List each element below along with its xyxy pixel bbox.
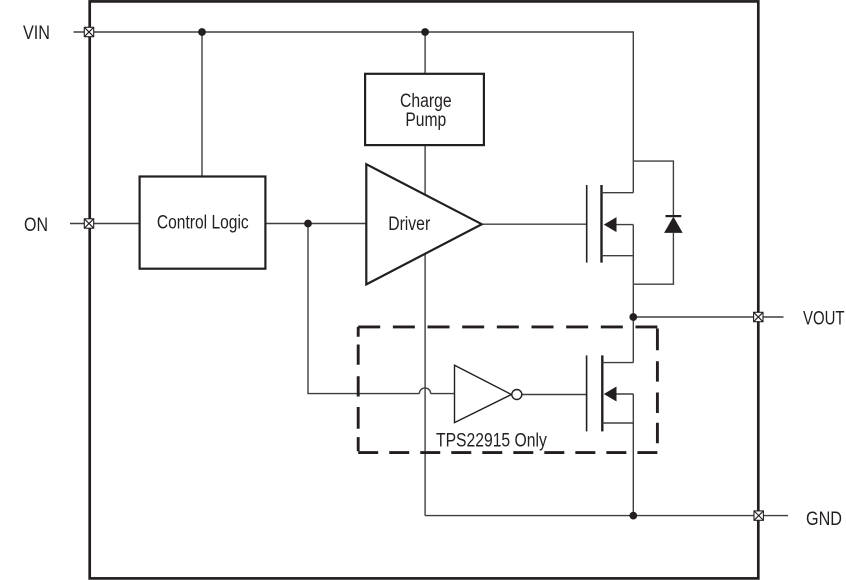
- transistor Q2 pulldown FET: [587, 355, 634, 431]
- transistor Q1 pass FET: [587, 185, 634, 263]
- Q2 source arm: [602, 422, 633, 424]
- wire VOUT node down to pulldown FET drain: [632, 317, 634, 363]
- wire body diode loop: [633, 161, 673, 284]
- wire Driver bottom to GND rail: [424, 253, 426, 515]
- dashed box right edge: [656, 329, 659, 444]
- dashed box left edge: [357, 327, 360, 451]
- wire VIN rail (VIN terminal to top of pass FET drain): [74, 32, 634, 193]
- svg-text:VIN: VIN: [23, 23, 50, 44]
- wire inverter output to pulldown FET gate: [522, 394, 587, 396]
- wire VIN to Charge Pump: [424, 32, 426, 74]
- Q1 drain arm: [602, 192, 634, 194]
- svg-text:VOUT: VOUT: [803, 309, 845, 330]
- body diode D1 of pass FET: [664, 216, 683, 233]
- Q2 gate bar: [586, 355, 588, 431]
- node: VOUT junction: [629, 313, 637, 321]
- Q2 channel bar: [601, 355, 603, 431]
- wire Control Logic output down to inverter input (with hop over GND wire): [308, 224, 455, 394]
- node: Control Logic output junction: [304, 220, 312, 228]
- wire Control Logic to Driver: [265, 223, 366, 225]
- amplifier: Driver: [366, 164, 482, 284]
- inverter U2: [455, 365, 522, 422]
- dashed box bottom edge: [358, 451, 657, 454]
- wire ON input: [70, 223, 140, 225]
- wire VOUT rail: [633, 316, 753, 318]
- Q2 body arm with arrow: [614, 393, 633, 395]
- svg-text:TPS22915 Only: TPS22915 Only: [436, 430, 547, 451]
- wire VIN to Control Logic: [201, 32, 203, 177]
- terminal VIN: [84, 27, 93, 36]
- node: GND junction: [629, 512, 637, 520]
- dashed box: TPS22915 Only section, top edge: [358, 325, 657, 328]
- Q1 gate bar: [586, 185, 588, 263]
- svg-text:Pump: Pump: [405, 110, 446, 131]
- block: Charge Pump: [365, 74, 484, 145]
- Q2 drain arm: [602, 362, 633, 364]
- terminal GND with stub: [754, 511, 788, 520]
- Q1 source arm: [602, 255, 634, 257]
- wire GND rail: [425, 515, 754, 517]
- terminal ON: [84, 219, 93, 228]
- IC boundary box: [90, 1, 759, 578]
- block: Control Logic: [140, 177, 266, 269]
- node: VIN tap to Charge Pump: [421, 28, 429, 36]
- wire Charge Pump to Driver: [424, 145, 426, 195]
- svg-text:GND: GND: [806, 509, 842, 530]
- Q1 body arm with arrow: [614, 224, 633, 226]
- wire Driver output to pass FET gate: [482, 223, 587, 225]
- svg-text:Driver: Driver: [388, 214, 431, 235]
- terminal VOUT with stub: [754, 312, 784, 321]
- Q1 channel bar: [600, 185, 602, 263]
- wire pulldown FET source down to GND rail: [632, 394, 634, 516]
- node: VIN tap to Control Logic: [198, 28, 206, 36]
- svg-text:Control Logic: Control Logic: [157, 212, 249, 233]
- wire pass FET source to VOUT node: [632, 225, 634, 317]
- svg-text:ON: ON: [24, 215, 48, 236]
